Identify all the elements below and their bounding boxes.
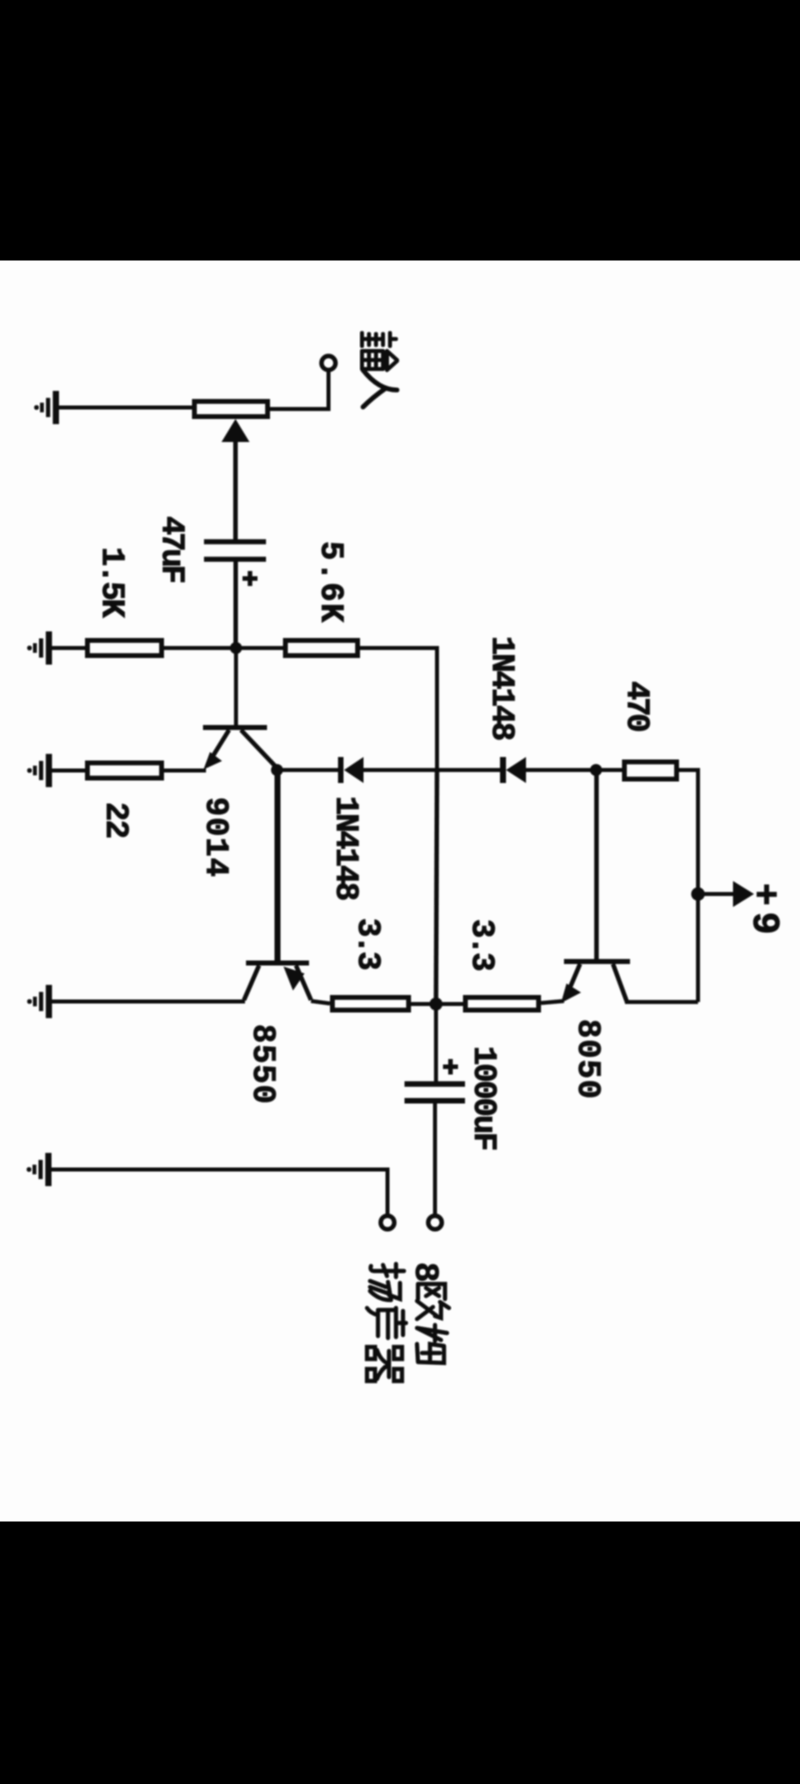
resistor R2 5.6K body [285, 640, 357, 655]
resistor R1 1.5K body [87, 640, 161, 655]
wire C2 to speaker terminal [433, 1101, 437, 1215]
svg-text:1N4148: 1N4148 [483, 636, 520, 740]
wire ground G1 to potentiometer [59, 406, 194, 410]
CJK glyph SHU (input 输) [362, 333, 397, 370]
transistor Q3 emitter arrowhead [561, 984, 581, 1004]
speaker terminal circle right [428, 1216, 442, 1230]
resistor R5 3.3 body [332, 997, 408, 1010]
wire ground G2 to R1 [52, 646, 85, 650]
wire ground G4 to Q2 collector [52, 1000, 245, 1004]
svg-text:8550: 8550 [244, 1024, 281, 1105]
wire potentiometer to input terminal [270, 372, 329, 409]
transistor Q2 base bar [246, 961, 309, 966]
wire D1 to D2 [364, 768, 501, 772]
svg-text:8050: 8050 [569, 1019, 606, 1100]
CJK glyph QI (speaker 器) [367, 1347, 402, 1381]
transistor Q2 emitter line [296, 966, 311, 1001]
svg-text:9014: 9014 [197, 797, 234, 878]
transistor Q3 8050 base wire [594, 770, 599, 959]
wire C1 to base rail junction [233, 562, 238, 651]
speaker terminal circle left [381, 1216, 395, 1230]
top letterbox bar [0, 0, 800, 261]
CJK glyph MU (speaker 姆) [417, 1325, 447, 1363]
CJK glyph SHENG (speaker 声) [367, 1308, 406, 1338]
transistor Q1 emitter arrowhead [204, 752, 223, 770]
wire R3 to Q1 emitter [164, 769, 206, 773]
svg-text:5.6K: 5.6K [312, 541, 349, 624]
CJK glyph OU (speaker 欧) [417, 1284, 449, 1319]
capacitor C2 1000uF plate 2 [405, 1098, 466, 1104]
junction dot supply node [691, 887, 705, 901]
diode D2 cathode bar [500, 757, 506, 783]
transistor Q1 collector line [241, 730, 277, 768]
input terminal circle [322, 356, 336, 370]
transistor Q1 base bar [203, 725, 267, 730]
wire R1 to junction [164, 646, 236, 650]
wire R2 to feedback column [360, 648, 437, 771]
wire bias node to R4 [596, 768, 622, 772]
wire R6 to Q3 emitter [541, 1001, 564, 1003]
resistor R3 22 body [87, 763, 161, 778]
transistor Q2 collector line [244, 966, 259, 1001]
schematic background [0, 261, 800, 1522]
ground G4 (output rail) [27, 985, 52, 1018]
junction dot base node [230, 642, 242, 654]
transistor Q2 emitter arrowhead (PNP, points to base) [284, 967, 305, 991]
svg-text:47uF: 47uF [153, 516, 190, 583]
capacitor C1 47uF plate 2 [204, 557, 266, 562]
junction dot bias node [590, 764, 602, 776]
wire ground G5 to speaker terminal [52, 1170, 388, 1216]
junction dot Q1 collector node [271, 764, 283, 776]
wire junction to R2 [236, 646, 283, 650]
potentiometer wiper arrow [233, 438, 238, 540]
bottom letterbox bar [0, 1522, 800, 1784]
ground G3 (22) [27, 754, 52, 787]
capacitor C1 47uF plate 1 [204, 539, 266, 544]
capacitor C2 1000uF plate 1 [405, 1081, 466, 1087]
resistor R6 3.3 body [465, 997, 538, 1010]
wire collector node to D1 [277, 768, 338, 772]
ground G5 (speaker return) [27, 1153, 52, 1186]
wire output node to R6 [436, 1002, 463, 1006]
wire R4 to supply column [679, 770, 698, 1002]
wire output node to C2 [434, 1004, 438, 1082]
diode D1 cathode bar [338, 757, 344, 783]
svg-text:22: 22 [97, 802, 134, 838]
svg-text:1000uF: 1000uF [465, 1046, 502, 1150]
transistor Q1 9014 base wire [234, 648, 238, 726]
transistor Q3 collector line [613, 964, 627, 1002]
CJK glyph RU (input 入) [363, 370, 397, 407]
svg-text:+9: +9 [742, 883, 785, 941]
wire R5 to output node [411, 1002, 436, 1006]
C2 plus polarity mark [443, 1059, 458, 1075]
wire ground G3 to R3 [52, 769, 85, 773]
transistor Q3 emitter line [566, 964, 580, 997]
ground G1 (input) [34, 391, 59, 424]
wire D2 to bias node [526, 768, 596, 772]
potentiometer RP1 body [194, 401, 267, 416]
ground G2 (1.5K) [27, 631, 52, 664]
wire Q2 emitter to R5 [311, 1001, 330, 1004]
svg-text:1N4148: 1N4148 [327, 796, 364, 900]
C1 plus polarity mark [243, 571, 258, 586]
diode D1 triangle [344, 757, 364, 783]
feedback column wire (vertical) [436, 771, 437, 1005]
svg-text:3.3: 3.3 [349, 918, 386, 969]
junction dot output node [430, 998, 443, 1011]
svg-text:3.3: 3.3 [463, 919, 500, 970]
svg-text:470: 470 [618, 681, 655, 731]
resistor R4 470 body [624, 762, 676, 779]
svg-text:1.5K: 1.5K [93, 547, 130, 619]
CJK glyph YANG (speaker 扬) [370, 1264, 404, 1300]
diode D2 triangle [506, 757, 526, 783]
svg-text:8: 8 [405, 1262, 443, 1282]
+9 supply arrow [698, 892, 736, 896]
transistor Q3 base bar [564, 959, 630, 964]
transistor Q1 emitter line [208, 730, 229, 764]
wire Q3 collector to supply column [625, 1000, 698, 1004]
transistor Q2 8550 base wire (thick) [275, 770, 281, 961]
